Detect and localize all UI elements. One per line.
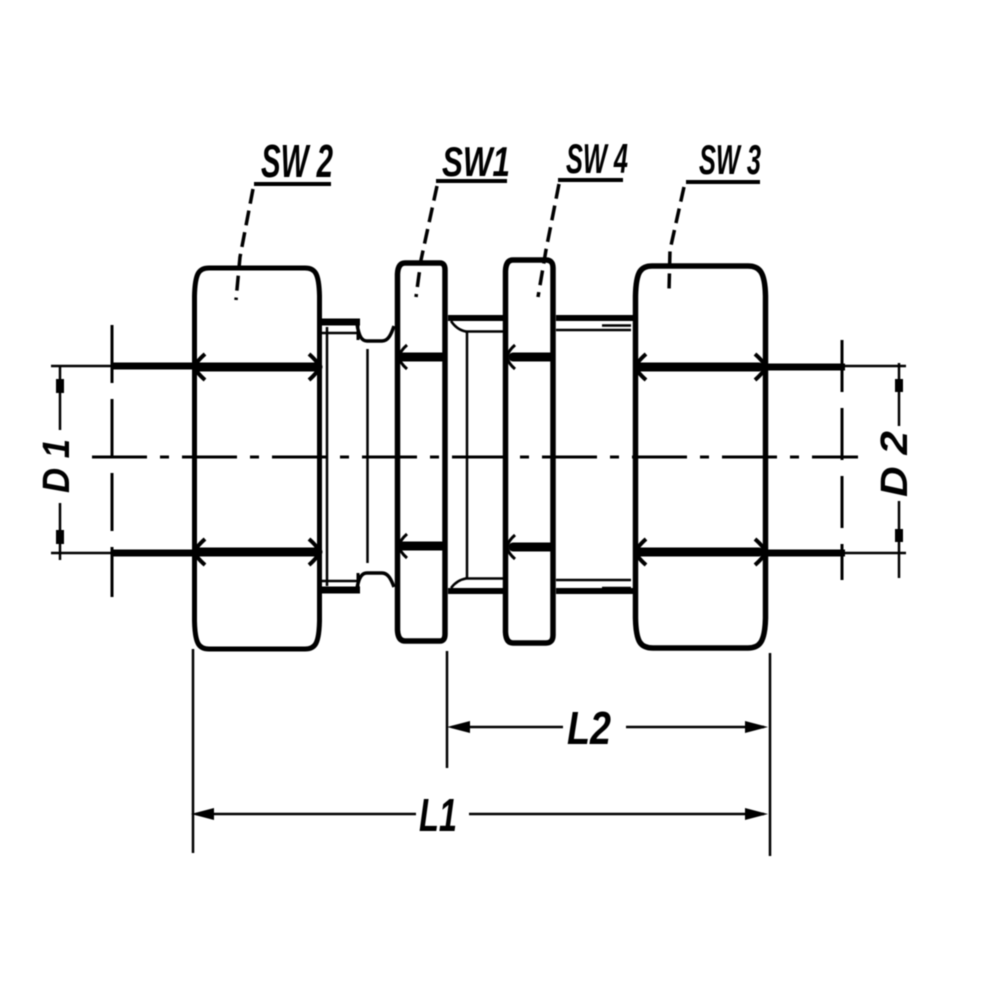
hex body SW1 upper chamfer line [403,353,442,362]
label SW1 underline [436,179,507,183]
dimension D1 line [59,366,62,430]
label SW3 leader [669,187,684,291]
label SW3 underline [686,180,760,184]
hex nut SW3 upper chamfer line [640,363,759,372]
hex body SW1 outline [398,263,446,641]
label SW1 leader [416,186,437,297]
locknut washer SW4 outline [506,260,554,643]
thread section A root vertical [466,332,469,578]
dimension L2 right extension shared with L1 [769,653,772,856]
svg-text:D 1: D 1 [36,439,78,493]
thread section A bottom thick line [448,588,505,594]
right tube center cross [841,340,844,580]
thread section B top thick line [556,315,635,321]
hex nut SW3 outline [636,266,766,648]
svg-text:SW 2: SW 2 [261,135,333,187]
thread section B bottom thick line [556,588,635,594]
dimension L2 left extension [446,651,449,768]
thread section B top thin line [556,329,631,332]
L1 left extension line [192,649,195,853]
thread section A top thin line [465,330,505,333]
left tube center cross [111,325,114,597]
wire right tube top line thick [766,364,845,371]
svg-text:SW 4: SW 4 [566,135,628,182]
svg-text:L2: L2 [567,702,611,754]
collar bottom inner thin line [322,580,357,583]
neck top profile [357,324,394,341]
wire left tube bottom line thick [111,550,197,557]
label SW4 underline [558,178,623,182]
neck bottom profile [357,573,394,588]
hex nut SW2 chamfer wedge arcs [195,354,206,380]
collar top inner thin line [322,332,357,335]
thread section B bottom thin line [556,579,631,582]
dimension D2 line [898,363,901,426]
dimension L1 line [196,813,416,816]
label SW2 leader [236,189,253,300]
hex nut SW2 outline [195,268,320,649]
tube end vertical line [366,349,369,563]
thread section A top thick line [448,315,505,321]
collar right step verticals [357,320,360,340]
svg-text:D 2: D 2 [874,431,916,497]
collar bottom thick edge [320,587,360,594]
thread section A bottom thin line [465,577,505,580]
wire right tube top line thin [843,365,906,368]
hex nut SW2 lower chamfer line [197,548,318,557]
hex body SW1 lower chamfer line [403,542,442,551]
thread section A bottom chamfer arc [451,579,466,589]
collar inner vertical line [326,327,329,586]
wire left tube bottom line thin [51,552,114,555]
thread section A top chamfer arc [451,321,466,332]
hex nut SW3 lower chamfer line [640,548,759,557]
wire right tube bottom line thick [766,550,845,557]
wire left tube top line thin [51,365,114,368]
svg-text:SW1: SW1 [442,138,510,185]
wire right tube bottom line thin [843,552,906,555]
wire left tube top line thick [111,363,197,370]
thread section B runout thin lines near SW3 [602,324,631,327]
label SW4 leader [538,184,559,297]
svg-text:SW 3: SW 3 [699,136,761,183]
label SW2 underline [254,182,331,186]
dimension L2 line [452,726,563,729]
centerline [92,456,858,459]
svg-text:L1: L1 [419,789,457,841]
washer SW4 upper chamfer line [513,353,550,362]
hex nut SW2 upper chamfer line [197,363,318,372]
washer SW4 lower chamfer line [513,543,550,552]
collar top thick edge [320,319,360,326]
